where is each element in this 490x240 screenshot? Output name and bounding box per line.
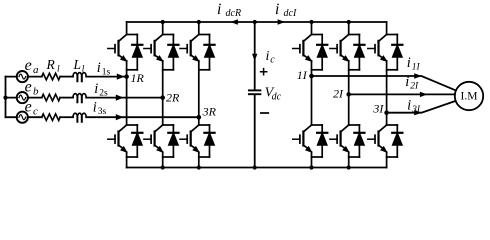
svg-text:3I: 3I bbox=[372, 102, 384, 116]
svg-text:I.M: I.M bbox=[461, 90, 478, 102]
svg-text:dc: dc bbox=[272, 92, 282, 103]
svg-text:e: e bbox=[25, 79, 32, 96]
svg-text:i: i bbox=[405, 74, 409, 90]
svg-text:3R: 3R bbox=[202, 104, 217, 118]
svg-text:1s: 1s bbox=[102, 67, 111, 77]
svg-text:i: i bbox=[94, 81, 98, 97]
svg-text:2s: 2s bbox=[99, 89, 108, 99]
svg-text:3I: 3I bbox=[411, 105, 421, 115]
svg-text:e: e bbox=[25, 57, 32, 74]
svg-text:e: e bbox=[25, 99, 32, 116]
svg-text:l: l bbox=[57, 65, 60, 75]
svg-text:i: i bbox=[97, 60, 101, 76]
svg-text:1R: 1R bbox=[131, 71, 145, 85]
svg-text:i: i bbox=[217, 1, 221, 18]
svg-text:a: a bbox=[33, 64, 39, 76]
svg-text:dcR: dcR bbox=[226, 8, 242, 19]
svg-text:i: i bbox=[266, 49, 270, 64]
svg-text:2R: 2R bbox=[166, 91, 180, 105]
svg-text:L: L bbox=[73, 57, 82, 72]
svg-text:i: i bbox=[407, 98, 411, 114]
svg-text:c: c bbox=[270, 55, 275, 66]
svg-text:3s: 3s bbox=[98, 107, 107, 117]
svg-text:1I: 1I bbox=[297, 68, 308, 82]
svg-text:R: R bbox=[46, 57, 56, 72]
svg-text:i: i bbox=[275, 1, 279, 18]
svg-text:l: l bbox=[82, 65, 85, 75]
svg-text:i: i bbox=[93, 100, 97, 116]
svg-text:dcI: dcI bbox=[284, 8, 297, 19]
svg-text:2I: 2I bbox=[333, 87, 344, 101]
svg-text:b: b bbox=[33, 85, 39, 97]
svg-text:1I: 1I bbox=[412, 62, 421, 72]
svg-text:2I: 2I bbox=[410, 82, 419, 92]
svg-text:i: i bbox=[407, 55, 411, 71]
svg-text:c: c bbox=[33, 105, 38, 117]
